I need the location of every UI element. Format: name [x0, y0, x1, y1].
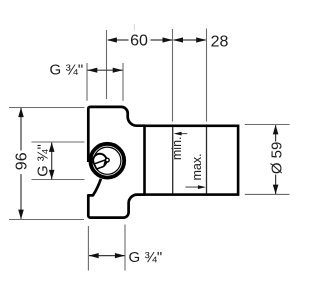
max annotation arrow tail [185, 186, 203, 188]
spindle flag [94, 160, 106, 169]
max wall line [206, 127, 208, 194]
dim 60 arrow left [107, 37, 117, 42]
dim 60 line left segment [108, 39, 129, 41]
max annotation arrowhead [198, 185, 206, 189]
extension line G3/4 top left [86, 63, 88, 101]
handle ring inner circle [94, 147, 121, 174]
dim 96 arrow up [18, 108, 24, 118]
dim 28 line [174, 39, 206, 41]
svg-text:Ø 59: Ø 59 [268, 142, 285, 175]
svg-text:28: 28 [211, 34, 229, 51]
dim 96 line lower segment [20, 174, 22, 219]
dim boss arrow down [49, 170, 55, 180]
svg-text:G ¾": G ¾" [129, 249, 163, 266]
extension line G3/4 bottom left [87, 226, 89, 271]
faint extension remnant [133, 24, 135, 31]
extension line dia59 bottom [245, 193, 290, 195]
extension line center axis (60 dim) [106, 30, 108, 99]
svg-text:G ¾": G ¾" [50, 62, 84, 79]
svg-text:min.: min. [170, 136, 184, 160]
dim dia59 arrow up [273, 125, 279, 134]
dim dia59 line lower segment [275, 175, 277, 195]
dim 28 arrow left [173, 37, 183, 42]
dim 60 line right segment [151, 39, 173, 41]
extension line dia59 top [245, 124, 290, 126]
escutcheon cylinder [145, 126, 239, 195]
dim boss line [51, 143, 53, 180]
dim 96 line upper segment [20, 108, 22, 151]
handle ring outer [90, 144, 124, 178]
extension line 96 bottom [9, 219, 84, 221]
extension line G3/4 bottom right [124, 225, 126, 271]
min annotation arrow tail [177, 133, 188, 135]
dim G3/4 bottom arrow right [115, 253, 125, 258]
svg-text:96: 96 [13, 152, 30, 170]
min wall line [172, 127, 174, 194]
extension line boss bottom left [32, 179, 85, 181]
spindle circle [93, 154, 106, 167]
dim dia59 arrow down [273, 185, 279, 195]
min annotation arrowhead [174, 132, 182, 136]
dim dia59 line upper segment [275, 125, 277, 141]
dim G3/4 top line [88, 69, 123, 71]
dim G3/4 bottom arrow left [89, 253, 99, 258]
extension line max (28 dim right) [206, 29, 208, 122]
svg-text:G ¾": G ¾" [35, 144, 51, 177]
dim G3/4 bottom line [89, 255, 125, 257]
extension line boss top left [32, 141, 85, 143]
svg-text:max.: max. [190, 153, 204, 180]
valve body outline lower [88, 179, 145, 218]
dim 96 arrow down [18, 210, 24, 220]
spindle nub circle [105, 158, 109, 162]
dim G3/4 top arrow right [113, 68, 123, 73]
extension line G3/4 top right [122, 63, 124, 101]
dim boss arrow up [49, 142, 55, 152]
extension line 96 top [9, 107, 85, 109]
valve body outline upper [88, 107, 145, 162]
extension line min (28 dim left) [172, 29, 174, 122]
dim 28 arrow right [196, 37, 206, 42]
svg-text:60: 60 [130, 33, 148, 50]
dim G3/4 top arrow left [87, 68, 97, 73]
dim 60 arrow right [163, 37, 173, 42]
